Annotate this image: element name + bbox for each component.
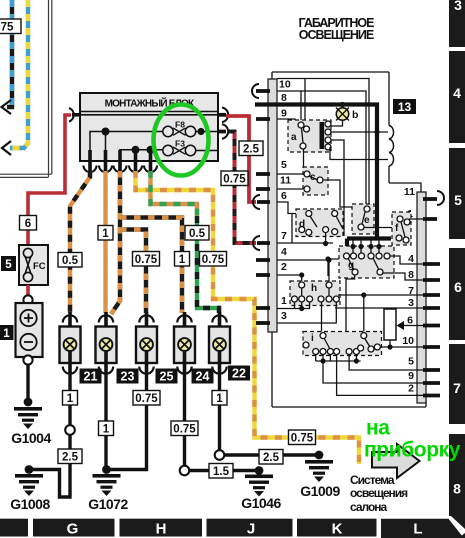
- wire h to switch i: [321, 302, 323, 333]
- label 0.75 (red/black wire): [221, 171, 248, 186]
- wire a to c: [303, 149, 305, 169]
- svg-text:H: H: [156, 521, 167, 538]
- wire g to pin8 right: [383, 273, 423, 280]
- wire pin7R inner: [338, 294, 423, 296]
- ground G1072: [88, 465, 128, 512]
- margin block 5: [449, 148, 465, 239]
- label 0.75 (dashboard feed): [200, 252, 227, 267]
- switch levers g: [348, 258, 379, 270]
- svg-text:6: 6: [407, 315, 413, 327]
- wire f to pin1 right: [409, 218, 423, 220]
- switch lever e: [362, 212, 365, 224]
- wire battery to ground: [26, 364, 29, 402]
- lamp 23: [96, 312, 117, 374]
- svg-text:21: 21: [84, 370, 98, 384]
- wire red FC to battery: [26, 285, 30, 297]
- contacts of h: [292, 282, 340, 302]
- tag 13: [393, 99, 416, 114]
- svg-text:1: 1: [67, 393, 74, 405]
- junction circle (lamp24 wire): [180, 466, 190, 476]
- wire F8 feed row: [90, 132, 163, 156]
- chevron connector (lower): [2, 141, 11, 155]
- svg-text:1: 1: [102, 228, 109, 240]
- label 1 (below lamp 22): [212, 391, 227, 406]
- wire relay down: [331, 140, 344, 236]
- wire pin6 to switch d: [277, 202, 305, 243]
- wire F3 feed row: [120, 150, 163, 155]
- mounting block (МОНТАЖНЫЙ БЛОК): [80, 93, 218, 161]
- right pin stubs: [423, 199, 440, 396]
- svg-text:13: 13: [398, 100, 412, 114]
- svg-text:приборку: приборку: [364, 439, 461, 462]
- switch block d: [296, 209, 343, 237]
- svg-text:e: e: [364, 215, 370, 226]
- label 0.75 (dashboard wire bottom): [289, 430, 316, 445]
- svg-text:0.75: 0.75: [173, 424, 196, 436]
- svg-text:9: 9: [408, 370, 414, 382]
- wire blue/yellow (top-left): [10, 0, 28, 148]
- contacts of i: [303, 333, 380, 355]
- fuse F3: [163, 139, 196, 156]
- wire i to pin9 right: [323, 361, 423, 383]
- wire lamp 23 to G1072: [104, 373, 107, 470]
- label 2.5 (to G1009): [259, 450, 283, 465]
- junction dots under i: [320, 358, 325, 363]
- svg-text:на: на: [366, 417, 390, 440]
- label 0.75 (below lamp 24): [171, 421, 198, 436]
- wire pin7 to switch d: [277, 233, 333, 247]
- switch levers h: [295, 288, 330, 309]
- svg-text:Система: Система: [350, 473, 395, 487]
- grid bar (bottom left stub): [0, 519, 28, 537]
- margin block 7: [449, 344, 465, 424]
- svg-text:0.75: 0.75: [135, 393, 158, 405]
- lamp 25: [136, 312, 157, 374]
- wire i to pin5 right: [349, 361, 423, 370]
- wire F3 to main row: [196, 115, 218, 151]
- junction dot F3 row a: [132, 146, 140, 154]
- wire lamp b to relay: [331, 120, 343, 126]
- svg-text:G: G: [67, 521, 79, 538]
- lamp b: [336, 102, 358, 121]
- label 0.5 (lamp 22 feed): [185, 226, 209, 241]
- wire pin3L inner: [277, 302, 336, 323]
- svg-text:1: 1: [103, 424, 110, 436]
- label 2.5 (lamp21 to ground): [58, 449, 82, 464]
- svg-text:h: h: [311, 283, 317, 294]
- lamp 22: [209, 312, 230, 374]
- svg-text:5: 5: [408, 356, 414, 368]
- svg-text:ОСВЕЩЕНИЕ: ОСВЕЩЕНИЕ: [299, 28, 374, 42]
- svg-text:10: 10: [402, 335, 414, 347]
- bus under switch i: [316, 354, 361, 361]
- wire relay to coil tap1: [331, 129, 388, 134]
- wire lamp 24 down: [183, 373, 186, 471]
- contacts of d: [299, 211, 338, 236]
- svg-text:7: 7: [281, 230, 287, 242]
- wire c to e: [323, 180, 352, 207]
- wire b4 yellow/orange (to dashboard feed): [136, 171, 360, 464]
- wire b2 orange to lamp 23: [103, 171, 107, 313]
- wire red 2.5 (block to lighting switch pin 6): [226, 116, 256, 202]
- junction circle (battery bottom): [23, 355, 32, 364]
- svg-text:1: 1: [179, 254, 186, 266]
- switch block e: [352, 204, 374, 234]
- pin 10 socket arc: [252, 84, 259, 98]
- label 1 (below lamp 21): [63, 391, 78, 406]
- svg-text:6: 6: [454, 279, 462, 295]
- svg-text:0.75: 0.75: [135, 254, 158, 266]
- tag 24: [192, 369, 214, 384]
- margin block 4: [449, 51, 465, 143]
- svg-text:1: 1: [3, 328, 10, 340]
- wire i to pin2 right: [337, 361, 423, 395]
- svg-text:8: 8: [453, 481, 461, 497]
- relay contacts: [325, 121, 331, 150]
- svg-text:4: 4: [453, 85, 461, 101]
- svg-text:FC: FC: [33, 261, 46, 272]
- contacts of e: [358, 206, 370, 230]
- contacts of f: [396, 216, 410, 243]
- junction dot F8 row: [102, 128, 110, 136]
- switch block a: [288, 120, 331, 152]
- switch block i: [303, 332, 382, 356]
- tag 25: [156, 369, 178, 384]
- svg-text:75: 75: [1, 22, 14, 34]
- wire relay to coil tap2: [330, 147, 388, 160]
- svg-text:2: 2: [408, 383, 414, 395]
- fuse FC: [19, 245, 48, 285]
- wire lamp 22 down: [218, 373, 221, 455]
- chevron connector (upper): [2, 100, 12, 114]
- lamp 21: [60, 312, 81, 374]
- ground G1046: [241, 466, 281, 511]
- junction circle (lamp22 wire): [215, 450, 225, 460]
- svg-text:G1008: G1008: [10, 496, 50, 512]
- wire red/black 0.75 (block to pin 7): [228, 132, 256, 244]
- svg-text:3: 3: [281, 310, 287, 322]
- margin block 8: [449, 434, 465, 529]
- wire b3 branch to lamp 25: [120, 230, 146, 314]
- svg-text:9: 9: [281, 108, 287, 120]
- wire pin4L inner: [277, 257, 332, 282]
- svg-text:1: 1: [281, 295, 287, 307]
- label 1.5 (to G1046): [209, 464, 233, 479]
- connector strip left (unit 13): [268, 79, 277, 332]
- switch block h: [290, 281, 340, 306]
- svg-text:i: i: [311, 333, 314, 344]
- switch block c: [303, 167, 328, 195]
- switch levers i: [324, 338, 370, 349]
- svg-text:салона: салона: [350, 500, 388, 514]
- ground G1009: [300, 451, 340, 499]
- wire g to switch i: [346, 276, 355, 332]
- wire lamp 25 to G1072: [106, 373, 147, 470]
- wire pin7R branch to switch i: [361, 292, 366, 333]
- switch levers d: [310, 216, 343, 229]
- wire pin10 inner: [277, 91, 366, 206]
- label 1 (below lamp 23): [99, 421, 114, 436]
- grid bar L: [381, 519, 464, 538]
- svg-text:4: 4: [281, 246, 287, 258]
- junction circle (battery top): [23, 295, 32, 304]
- svg-text:0.75: 0.75: [291, 433, 314, 445]
- wire black/blue (top-left): [7, 0, 12, 107]
- connector block g: [339, 246, 394, 278]
- label 1 (lamp 24 feed): [175, 252, 190, 267]
- margin corner piece: [459, 533, 465, 538]
- switch lever f: [401, 222, 405, 237]
- label 0.5 (lamp 21 feed): [58, 253, 82, 268]
- margin block 3: [449, 0, 465, 47]
- wire pin9 to switch a: [277, 119, 295, 125]
- tag 21: [80, 369, 102, 384]
- wire b5 green upper to corner: [151, 171, 198, 216]
- svg-text:G1046: G1046: [241, 495, 281, 511]
- svg-text:0.5: 0.5: [189, 228, 206, 240]
- wire red feed (battery to mounting block): [28, 115, 71, 246]
- wire top inner a: [277, 79, 369, 207]
- svg-text:a: a: [291, 132, 297, 143]
- wire e to thick bar: [364, 227, 396, 229]
- wire rheostat to pin10 right: [380, 340, 423, 350]
- svg-text:5: 5: [281, 159, 287, 171]
- pin 6 socket arc: [253, 195, 260, 209]
- svg-text:G1004: G1004: [11, 430, 51, 446]
- label 6: [20, 216, 37, 231]
- svg-text:8: 8: [408, 269, 414, 281]
- svg-text:J: J: [247, 521, 255, 538]
- svg-text:L: L: [413, 521, 422, 538]
- wire pin2L inner: [277, 272, 304, 282]
- left pin stubs: [255, 91, 270, 323]
- switch lever c: [309, 176, 318, 180]
- pin 11 socket arc (right): [437, 191, 444, 205]
- contacts of c: [304, 171, 323, 192]
- pin right lower of mounting block: [217, 124, 228, 139]
- switch unit 13 outline: [272, 72, 426, 407]
- svg-text:0.75: 0.75: [223, 174, 246, 186]
- lamp 24: [174, 312, 195, 374]
- contacts of a: [298, 122, 310, 149]
- grid bar G: [33, 519, 115, 538]
- svg-text:0.75: 0.75: [202, 254, 225, 266]
- wire pin1L inner: [277, 306, 310, 311]
- wire F8 output: [196, 128, 222, 135]
- ground G1004: [11, 398, 51, 446]
- svg-text:5: 5: [5, 259, 12, 271]
- tag 23: [117, 369, 139, 384]
- svg-text:3: 3: [454, 0, 462, 13]
- rheostat (illumination dimmer): [384, 309, 423, 340]
- svg-text:23: 23: [121, 370, 135, 384]
- svg-text:4: 4: [408, 253, 414, 265]
- relay coil bar: [320, 122, 325, 149]
- switch block f: [392, 212, 411, 245]
- label 2.5 (red wire): [239, 141, 263, 156]
- svg-text:25: 25: [160, 370, 174, 384]
- label 1 (lamp 23 feed): [98, 226, 113, 241]
- wire lamp 21 to G1008: [29, 373, 70, 497]
- svg-text:2.5: 2.5: [263, 452, 280, 464]
- svg-text:2: 2: [281, 261, 287, 273]
- title clearance lighting: [299, 16, 375, 42]
- battery G1: [16, 303, 43, 357]
- svg-text:0.5: 0.5: [62, 255, 79, 267]
- svg-text:b: b: [352, 109, 358, 121]
- svg-text:11: 11: [280, 175, 291, 187]
- right pin numbers: [402, 186, 415, 395]
- label 0.75 (below lamp 25): [133, 391, 160, 406]
- svg-text:G1072: G1072: [88, 496, 128, 512]
- wire pin11L to switch c: [277, 188, 305, 190]
- green highlight ellipse: [154, 105, 209, 176]
- svg-text:6: 6: [281, 190, 287, 202]
- wire lamp24 junction to G1046: [189, 469, 259, 472]
- coil (suppressor on unit edge): [389, 126, 394, 167]
- wire b3 branch to lamp 24: [120, 218, 182, 314]
- pin left of mounting block: [69, 108, 81, 122]
- connector strip right (unit 13): [417, 192, 426, 403]
- junction circle (lamp21 wire): [65, 425, 75, 435]
- arrow to cabin lighting system: [372, 444, 420, 478]
- svg-text:2.5: 2.5: [243, 144, 260, 156]
- tag 1: [0, 325, 14, 340]
- pin right top of mounting block: [217, 108, 228, 123]
- grid bar H: [120, 519, 203, 538]
- svg-text:7: 7: [453, 380, 461, 396]
- svg-text:освещения: освещения: [350, 486, 408, 500]
- grid bar J: [207, 519, 293, 538]
- svg-text:3: 3: [408, 297, 414, 309]
- wire h link to g: [325, 256, 339, 276]
- svg-text:1: 1: [216, 393, 223, 405]
- svg-text:G1009: G1009: [300, 483, 340, 499]
- svg-text:11: 11: [404, 186, 415, 198]
- svg-text:8: 8: [281, 92, 287, 104]
- left pin numbers: [279, 79, 291, 323]
- wire b5 green lower to lamp 22: [197, 216, 219, 313]
- wire g to pin4 right: [390, 256, 423, 264]
- switch lever a: [302, 128, 304, 143]
- svg-text:2.5: 2.5: [62, 452, 79, 464]
- tag 22: [228, 366, 250, 381]
- text cabin lighting system: [350, 473, 408, 514]
- wire b3 black/orange trunk: [111, 171, 120, 314]
- text na priborku (green): [364, 417, 461, 462]
- thick feed from pin 8: [255, 105, 391, 253]
- svg-text:22: 22: [232, 367, 246, 381]
- margin block 6: [449, 248, 465, 340]
- svg-text:5: 5: [454, 192, 462, 208]
- wire b1 orange/black to lamp 21: [70, 171, 90, 313]
- label 0.75 (cut at left edge): [0, 19, 21, 34]
- junction dot F3 row b: [147, 146, 155, 154]
- g feed drops with dots: [350, 240, 381, 253]
- label 0.75 (lamp 25 feed): [133, 252, 160, 267]
- ground G1008: [10, 465, 50, 512]
- mounting block bottom pins (5 stubs with arcs): [90, 150, 151, 171]
- svg-text:24: 24: [196, 370, 210, 384]
- svg-text:6: 6: [25, 218, 31, 230]
- wire pin5 to switch c: [277, 173, 305, 175]
- svg-text:10: 10: [279, 79, 291, 91]
- grid bar K: [297, 519, 377, 538]
- wire lamp22 junction to G1009: [224, 453, 319, 456]
- contacts of g: [344, 253, 391, 275]
- wire pin3R inner: [335, 307, 423, 309]
- svg-text:F3: F3: [175, 139, 185, 149]
- wire drops to switch a: [301, 79, 305, 123]
- svg-text:F8: F8: [175, 120, 185, 130]
- component box (top-left, partial, double border): [0, 0, 52, 177]
- svg-text:1.5: 1.5: [213, 466, 230, 478]
- tag 5: [1, 256, 16, 271]
- svg-text:K: K: [332, 521, 343, 538]
- pin 7 socket arc: [253, 236, 260, 250]
- fuse F8: [163, 120, 196, 137]
